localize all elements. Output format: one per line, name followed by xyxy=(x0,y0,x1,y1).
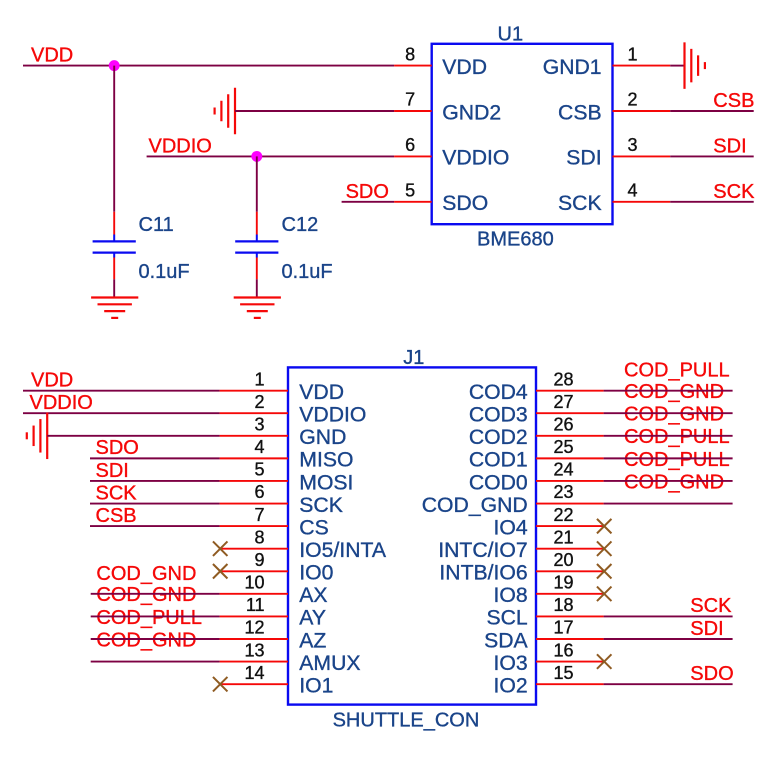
svg-text:SDO: SDO xyxy=(442,192,488,215)
J1 pin 18 SCL stub xyxy=(536,615,604,617)
svg-text:C11: C11 xyxy=(139,214,174,236)
svg-text:2: 2 xyxy=(254,392,264,412)
svg-text:CS: CS xyxy=(299,516,328,539)
svg-text:COD_PULL: COD_PULL xyxy=(624,360,730,382)
svg-text:1: 1 xyxy=(628,44,638,64)
svg-text:VDDIO: VDDIO xyxy=(30,392,93,414)
wire COD_GND to J1 pin 10 xyxy=(91,593,220,595)
wire SDO net to U1 pin 5 xyxy=(342,201,395,203)
svg-text:INTC/IO7: INTC/IO7 xyxy=(438,539,527,562)
svg-text:C12: C12 xyxy=(282,214,319,236)
svg-text:IO8: IO8 xyxy=(494,584,528,607)
wire SDO from J1 pin 15 xyxy=(604,683,733,685)
no-connect X at J1 pin 16 xyxy=(597,654,612,669)
J1 pin 26 COD2 stub xyxy=(536,435,604,437)
svg-text:COD1: COD1 xyxy=(469,449,528,472)
U1 pin 4 SCK stub xyxy=(613,201,671,203)
wire to J1 pin 13 xyxy=(91,661,220,663)
no-connect X at J1 pin 8 xyxy=(213,541,228,556)
svg-text:SDO: SDO xyxy=(690,663,733,685)
svg-text:SCK: SCK xyxy=(96,482,138,504)
svg-text:IO5/INTA: IO5/INTA xyxy=(299,539,387,562)
U1 pin 1 GND1 stub xyxy=(613,65,671,67)
svg-text:11: 11 xyxy=(246,595,265,615)
wire COD_GND from J1 pin 27 xyxy=(604,412,733,414)
wire VDDIO down to C12 xyxy=(256,156,258,211)
J1 pin 7 CS stub xyxy=(220,525,288,527)
wire VDDIO net to U1 pin 6 xyxy=(147,155,395,157)
svg-text:10: 10 xyxy=(244,573,264,593)
no-connect X at J1 pin 21 xyxy=(597,541,612,556)
svg-text:15: 15 xyxy=(554,663,574,683)
svg-text:9: 9 xyxy=(254,550,264,570)
svg-text:CSB: CSB xyxy=(96,505,137,527)
J1 pin 25 COD1 stub xyxy=(536,457,604,459)
wire SCK net from U1 pin 4 xyxy=(670,201,754,203)
svg-text:7: 7 xyxy=(254,505,264,525)
capacitor C12 bottom lead xyxy=(256,258,258,280)
svg-text:5: 5 xyxy=(254,460,264,480)
svg-text:GND1: GND1 xyxy=(543,56,602,79)
svg-text:GND: GND xyxy=(299,426,346,449)
U1 pin 3 SDI stub xyxy=(613,155,671,157)
svg-text:8: 8 xyxy=(405,44,415,64)
J1 pin 17 SDA stub xyxy=(536,638,604,640)
J1 pin 1 VDD stub xyxy=(220,390,288,392)
wire CSB net from U1 pin 2 xyxy=(670,110,754,112)
wire U1 pin 1 to ground xyxy=(670,65,684,67)
J1 pin 15 IO2 stub xyxy=(536,683,604,685)
svg-text:4: 4 xyxy=(628,181,638,201)
svg-text:8: 8 xyxy=(254,527,264,547)
svg-text:COD_PULL: COD_PULL xyxy=(624,426,730,448)
wire SDO to J1 pin 4 xyxy=(90,457,220,459)
svg-text:VDD: VDD xyxy=(31,44,73,66)
svg-text:COD_GND: COD_GND xyxy=(624,381,724,403)
svg-text:SDI: SDI xyxy=(713,135,746,157)
svg-text:0.1uF: 0.1uF xyxy=(282,261,333,283)
wire ground to U1 pin 7 xyxy=(235,110,394,112)
U1 pin 7 GND2 stub xyxy=(394,110,432,112)
no-connect X at J1 pin 20 xyxy=(597,564,612,579)
svg-text:4: 4 xyxy=(254,437,264,457)
J1 pin 24 COD0 stub xyxy=(536,480,604,482)
svg-text:12: 12 xyxy=(244,618,264,638)
no-connect X at J1 pin 19 xyxy=(597,587,612,602)
svg-text:VDD: VDD xyxy=(31,370,73,392)
svg-text:16: 16 xyxy=(554,640,574,660)
svg-text:3: 3 xyxy=(628,135,638,155)
svg-text:18: 18 xyxy=(554,595,574,615)
svg-text:SCK: SCK xyxy=(713,181,755,203)
svg-text:14: 14 xyxy=(244,663,264,683)
svg-text:17: 17 xyxy=(554,618,574,638)
svg-text:COD_GND: COD_GND xyxy=(96,584,196,606)
J1 pin 10 AX stub xyxy=(220,593,288,595)
svg-text:VDD: VDD xyxy=(442,56,487,79)
IC U1 body (BME680) xyxy=(432,44,613,224)
svg-text:COD_GND: COD_GND xyxy=(96,629,196,651)
svg-text:19: 19 xyxy=(554,573,574,593)
wire COD_GND from J1 pin 24 xyxy=(604,480,733,482)
J1 pin 20 INTB/IO6 stub xyxy=(536,570,604,572)
wire SDI from J1 pin 17 xyxy=(604,638,733,640)
U1 pin 2 CSB stub xyxy=(613,110,671,112)
wire COD_PULL from J1 pin 26 xyxy=(604,435,733,437)
wire C12 to ground xyxy=(256,279,258,297)
svg-text:COD_PULL: COD_PULL xyxy=(96,607,202,629)
ground symbol at U1 pin 7 GND2 xyxy=(234,88,236,135)
J1 pin 9 IO0 stub xyxy=(220,570,288,572)
J1 pin 19 IO8 stub xyxy=(536,593,604,595)
svg-text:20: 20 xyxy=(554,550,574,570)
svg-text:AMUX: AMUX xyxy=(299,652,360,675)
J1 pin 22 IO4 stub xyxy=(536,525,604,527)
capacitor C12 plates xyxy=(256,235,258,242)
svg-text:6: 6 xyxy=(254,482,264,502)
J1 pin 13 AMUX stub xyxy=(220,661,288,663)
svg-text:IO1: IO1 xyxy=(299,674,333,697)
svg-text:IO3: IO3 xyxy=(494,652,528,675)
U1 pin 5 SDO stub xyxy=(394,201,432,203)
J1 pin 27 COD3 stub xyxy=(536,412,604,414)
J1 pin 4 MISO stub xyxy=(220,457,288,459)
svg-text:AX: AX xyxy=(299,584,327,607)
wire CSB to J1 pin 7 xyxy=(90,525,220,527)
capacitor C11 top lead xyxy=(113,212,115,235)
svg-text:AY: AY xyxy=(299,607,326,630)
svg-text:INTB/IO6: INTB/IO6 xyxy=(439,562,527,585)
svg-text:GND2: GND2 xyxy=(442,101,501,124)
svg-text:SDA: SDA xyxy=(484,629,528,652)
svg-text:VDDIO: VDDIO xyxy=(299,404,366,427)
svg-text:SCK: SCK xyxy=(299,494,343,517)
wire VDD to J1 pin 1 xyxy=(23,390,220,392)
J1 pin 8 IO5/INTA stub xyxy=(220,548,288,550)
wire SDI to J1 pin 5 xyxy=(90,480,220,482)
J1 pin 28 COD4 stub xyxy=(536,390,604,392)
svg-text:MOSI: MOSI xyxy=(299,471,353,494)
svg-text:25: 25 xyxy=(554,437,574,457)
svg-text:SHUTTLE_CON: SHUTTLE_CON xyxy=(333,709,480,731)
junction node VDDIO / C12 xyxy=(251,151,262,162)
svg-text:COD_GND: COD_GND xyxy=(624,471,724,493)
svg-text:SDI: SDI xyxy=(96,460,129,482)
svg-text:COD3: COD3 xyxy=(469,404,528,427)
wire SCK to J1 pin 6 xyxy=(90,503,220,505)
svg-text:6: 6 xyxy=(405,135,415,155)
svg-text:SCL: SCL xyxy=(486,607,527,630)
svg-text:27: 27 xyxy=(554,392,574,412)
svg-text:COD_GND: COD_GND xyxy=(422,494,528,517)
svg-text:SDO: SDO xyxy=(346,181,389,203)
J1 pin 6 SCK stub xyxy=(220,503,288,505)
svg-text:SDI: SDI xyxy=(566,147,601,170)
wire COD_GND to J1 pin 12 xyxy=(91,638,220,640)
ground symbol below C11 xyxy=(91,296,138,298)
svg-text:0.1uF: 0.1uF xyxy=(139,261,190,283)
svg-text:U1: U1 xyxy=(498,23,524,45)
no-connect X at J1 pin 22 xyxy=(597,519,612,534)
svg-text:AZ: AZ xyxy=(299,629,326,652)
svg-text:SDO: SDO xyxy=(96,437,139,459)
svg-text:COD2: COD2 xyxy=(469,426,528,449)
svg-text:COD_PULL: COD_PULL xyxy=(624,449,730,471)
svg-text:VDD: VDD xyxy=(299,381,344,404)
capacitor C11 bottom lead xyxy=(113,258,115,280)
svg-text:13: 13 xyxy=(244,640,264,660)
junction node VDD / C11 xyxy=(109,60,120,71)
svg-text:21: 21 xyxy=(554,527,574,547)
J1 pin 3 GND stub xyxy=(220,435,288,437)
no-connect X at J1 pin 9 xyxy=(213,564,228,579)
wire VDD net to U1 pin 8 xyxy=(23,65,394,67)
ground symbol at U1 pin 1 GND1 xyxy=(683,42,685,89)
J1 pin 14 IO1 stub xyxy=(220,683,288,685)
svg-text:MISO: MISO xyxy=(299,449,353,472)
J1 pin 5 MOSI stub xyxy=(220,480,288,482)
svg-text:SDI: SDI xyxy=(690,618,723,640)
svg-text:IO0: IO0 xyxy=(299,562,333,585)
wire C11 to ground xyxy=(113,279,115,297)
svg-text:IO4: IO4 xyxy=(494,516,528,539)
wire COD_PULL to J1 pin 11 xyxy=(91,615,220,617)
svg-text:26: 26 xyxy=(554,415,574,435)
svg-text:1: 1 xyxy=(254,369,264,389)
wire from J1 pin 23 xyxy=(604,503,733,505)
svg-text:BME680: BME680 xyxy=(477,229,554,251)
connector J1 body (SHUTTLE_CON) xyxy=(288,367,536,704)
wire COD_GND from J1 pin 28 xyxy=(604,390,733,392)
ground symbol below C12 xyxy=(234,296,281,298)
svg-text:J1: J1 xyxy=(403,347,424,369)
wire SDI net from U1 pin 3 xyxy=(670,155,754,157)
svg-text:VDDIO: VDDIO xyxy=(149,135,212,157)
svg-text:COD_GND: COD_GND xyxy=(96,563,196,585)
svg-text:23: 23 xyxy=(554,482,574,502)
J1 pin 21 INTC/IO7 stub xyxy=(536,548,604,550)
U1 pin 8 VDD stub xyxy=(394,65,432,67)
svg-text:28: 28 xyxy=(554,369,574,389)
svg-text:CSB: CSB xyxy=(558,101,602,124)
svg-text:COD4: COD4 xyxy=(469,381,528,404)
no-connect X at J1 pin 14 xyxy=(213,677,228,692)
svg-text:5: 5 xyxy=(405,181,415,201)
capacitor C11 plates xyxy=(113,235,115,242)
svg-text:2: 2 xyxy=(628,90,638,110)
svg-text:22: 22 xyxy=(554,505,574,525)
U1 pin 6 VDDIO stub xyxy=(394,155,432,157)
svg-text:COD_GND: COD_GND xyxy=(624,404,724,426)
svg-text:7: 7 xyxy=(405,90,415,110)
svg-text:IO2: IO2 xyxy=(494,674,528,697)
svg-text:CSB: CSB xyxy=(713,90,754,112)
capacitor C12 top lead xyxy=(256,212,258,235)
wire ground to J1 pin 3 xyxy=(47,435,219,437)
ground symbol at J1 pin 3 xyxy=(46,413,48,460)
wire VDDIO to J1 pin 2 xyxy=(23,412,220,414)
wire COD_PULL from J1 pin 25 xyxy=(604,457,733,459)
svg-text:3: 3 xyxy=(254,415,264,435)
wire SCK from J1 pin 18 xyxy=(604,615,733,617)
svg-text:24: 24 xyxy=(554,460,574,480)
J1 pin 12 AZ stub xyxy=(220,638,288,640)
J1 pin 16 IO3 stub xyxy=(536,661,604,663)
svg-text:SCK: SCK xyxy=(558,192,602,215)
J1 pin 23 COD_GND stub xyxy=(536,503,604,505)
svg-text:SCK: SCK xyxy=(690,595,732,617)
svg-text:VDDIO: VDDIO xyxy=(442,147,509,170)
J1 pin 2 VDDIO stub xyxy=(220,412,288,414)
wire VDD down to C11 xyxy=(113,66,115,212)
J1 pin 11 AY stub xyxy=(220,615,288,617)
svg-text:COD0: COD0 xyxy=(469,471,528,494)
